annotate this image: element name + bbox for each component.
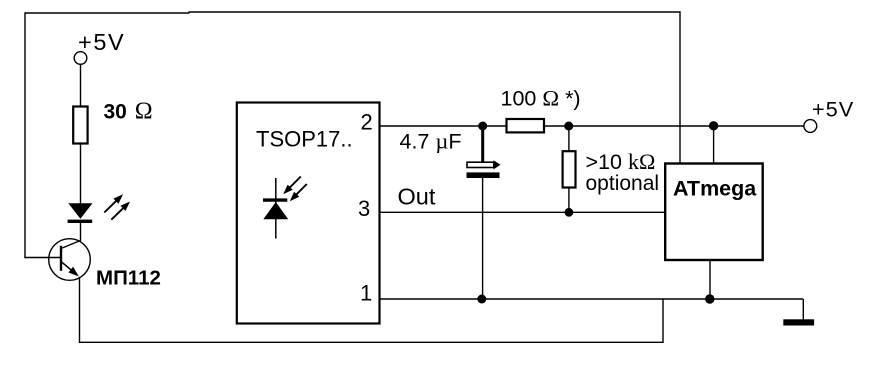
LED D1 emission arrow 2	[111, 202, 130, 220]
svg-text:4.7 µF: 4.7 µF	[400, 129, 462, 154]
transistor Q1 collector stroke	[61, 240, 81, 248]
svg-text:optional: optional	[586, 172, 660, 195]
wire: +5V terminal to resistor R1	[80, 64, 82, 106]
capacitor C1	[467, 126, 501, 299]
svg-text:МП112: МП112	[96, 267, 161, 290]
LED D1	[68, 203, 93, 223]
node: junction dot cap top	[478, 122, 487, 131]
wire: bottom horizontal	[79, 341, 663, 343]
transistor Q1 emitter stroke with arrow	[61, 262, 79, 277]
photodiode D2 incoming arrow 1	[283, 177, 301, 195]
node: junction dot R3 top	[564, 122, 573, 131]
svg-text:Out: Out	[398, 184, 436, 210]
wire: Out net pin3 to ATmega	[380, 211, 666, 213]
svg-text:3: 3	[358, 196, 370, 221]
svg-text:ATmega: ATmega	[673, 177, 757, 201]
wire: pin2 to resistor R2	[380, 125, 507, 127]
IC U2 ATmega box	[665, 164, 763, 261]
wire: emitter down	[79, 277, 81, 343]
wire: resistor R2 to +5V terminal	[544, 125, 804, 127]
photodiode D2	[263, 178, 288, 239]
transistor Q1 MP112 body circle	[49, 239, 91, 281]
terminal +5V left	[74, 52, 87, 65]
resistor R1 30 ohm	[73, 107, 87, 144]
wire: right vertical from top border down to ATmega pin	[679, 11, 681, 163]
svg-text:+5V: +5V	[78, 29, 125, 55]
svg-text:+5V: +5V	[812, 98, 854, 122]
LED D1 emission arrow 1	[104, 194, 123, 212]
svg-text:2: 2	[361, 110, 373, 135]
resistor R2 100 ohm	[507, 119, 545, 132]
wire: junction to resistor R3	[568, 126, 570, 151]
wire: LED cathode to transistor collector	[80, 223, 82, 241]
resistor R3 pull-up	[563, 151, 576, 187]
transistor Q1 base bar	[60, 246, 62, 271]
node: junction dot cap bottom on ground net	[477, 295, 486, 304]
node: junction dot ATmega ground	[705, 294, 714, 303]
IC U1 TSOP17.. box	[237, 103, 380, 324]
node: junction dot R3 bottom on Out net	[565, 208, 574, 217]
wire: Vcc dot to ATmega top	[713, 126, 715, 164]
svg-text:100 Ω *): 100 Ω *)	[501, 86, 581, 111]
wire: resistor R3 to Out net	[568, 188, 570, 213]
svg-text:>10 kΩ: >10 kΩ	[586, 149, 656, 174]
wire: resistor R1 to LED D1	[80, 144, 82, 204]
wire: bottom right vertical up to pin1 net	[662, 299, 664, 343]
wire: ground net down to ground symbol	[802, 299, 804, 319]
svg-text:TSOP17..: TSOP17..	[256, 127, 353, 152]
svg-text:30 Ω: 30 Ω	[104, 99, 153, 125]
ground	[783, 319, 814, 325]
wire: top border left segment (base net)	[25, 12, 190, 14]
wire: left border vertical (base net)	[24, 12, 26, 257]
svg-text:1: 1	[360, 281, 372, 306]
wire: ATmega bottom to ground net	[709, 260, 711, 299]
wire: top border right segment (base net)	[189, 11, 681, 13]
photodiode D2 incoming arrow 2	[290, 184, 307, 201]
node: junction dot ATmega Vcc	[709, 121, 718, 130]
terminal +5V right	[804, 120, 817, 133]
wire: pin1 ground net	[380, 298, 804, 300]
wire: base horizontal to transistor	[24, 257, 61, 259]
